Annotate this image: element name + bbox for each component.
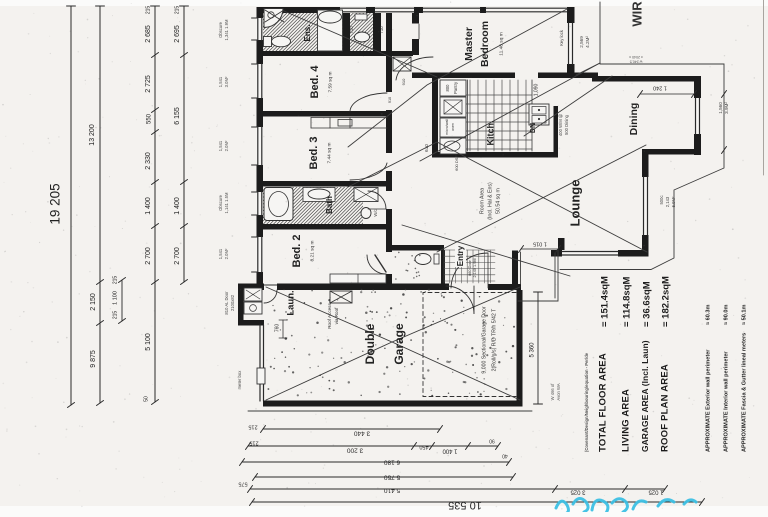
svg-text:1 025: 1 025 [648, 488, 664, 494]
svg-text:via Roof: via Roof [334, 307, 339, 325]
roof hip lounge sw-ne [437, 145, 646, 252]
svg-text:APPROXIMATE Fascia & Gutter li: APPROXIMATE Fascia & Gutter lineal meter… [741, 333, 747, 452]
window lounge south wall [562, 250, 618, 257]
svg-text:2,143: 2,143 [665, 196, 670, 207]
wc/entry north wall [390, 245, 444, 251]
svg-text:1,090: 1,090 [533, 84, 539, 97]
master bottom / lounge top wall [412, 73, 515, 79]
laundry wm [244, 302, 262, 314]
svg-text:W 466 of: W 466 of [550, 383, 555, 401]
svg-text:LIVING AREA: LIVING AREA [621, 389, 632, 452]
dim 1,240 dining [640, 93, 694, 95]
garage personal door [446, 286, 474, 314]
svg-text:1 240: 1 240 [653, 85, 667, 91]
svg-text:2,140 1.9M: 2,140 1.9M [473, 259, 477, 278]
svg-text:4.2M²: 4.2M² [585, 36, 590, 48]
svg-text:710: 710 [379, 26, 384, 34]
svg-text:1,560: 1,560 [718, 102, 723, 114]
kitchen fridge [440, 97, 466, 117]
ens/wc divider [343, 13, 350, 51]
svg-text:1,341 1.9M: 1,341 1.9M [224, 19, 229, 40]
scan edge artifact [763, 0, 765, 175]
svg-text:GARAGE AREA (Incl. Laun): GARAGE AREA (Incl. Laun) [640, 340, 650, 452]
bottom dim row C [242, 461, 509, 463]
powder toilet near entry [415, 254, 431, 265]
svg-text:3.0M²: 3.0M² [224, 76, 229, 87]
svg-text:215: 215 [249, 440, 258, 446]
svg-text:6 155: 6 155 [174, 107, 181, 125]
shower ensuite quarter round [264, 9, 283, 28]
svg-text:DN: DN [530, 123, 537, 133]
svg-text:19 205: 19 205 [48, 183, 63, 224]
toilet ensuite [264, 37, 272, 47]
svg-text:≈ 90.0m: ≈ 90.0m [723, 304, 729, 325]
svg-text:TOTAL FLOOR AREA: TOTAL FLOOR AREA [598, 353, 609, 452]
svg-text:500 Dining: 500 Dining [564, 114, 569, 135]
svg-text:90: 90 [489, 438, 495, 444]
svg-text:Lounge: Lounge [567, 180, 582, 227]
wall bath/bed2 [263, 224, 392, 230]
vanity ensuite [318, 10, 343, 51]
svg-text:215: 215 [112, 276, 118, 285]
door master [396, 57, 433, 80]
svg-text:Avon WA: Avon WA [556, 383, 561, 400]
svg-text:5 100: 5 100 [145, 333, 152, 351]
svg-text:6 180: 6 180 [383, 458, 400, 465]
svg-text:1,141 1.5M: 1,141 1.5M [224, 192, 229, 213]
roof hip through kitchen [420, 63, 600, 161]
svg-text:215: 215 [174, 6, 180, 15]
master bedroom west wall [412, 13, 419, 24]
blue pen scribble [556, 498, 696, 514]
roof hip across porch [402, 225, 570, 276]
svg-text:50: 50 [143, 396, 149, 402]
robe bed2 [330, 274, 386, 283]
svg-text:215: 215 [145, 6, 151, 15]
garage east wall [517, 290, 523, 407]
svg-text:Garage: Garage [392, 323, 406, 365]
roof valley dining [524, 76, 612, 136]
kitchen sink [440, 138, 466, 154]
svg-text:= 151.4sqM: = 151.4sqM [600, 276, 611, 327]
svg-text:610: 610 [424, 144, 429, 152]
kitchen pantry [440, 80, 466, 96]
svg-text:Obscure: Obscure [218, 21, 223, 37]
kitchen ovens [440, 118, 466, 137]
toilet wc nook [355, 32, 370, 42]
svg-text:2 700: 2 700 [174, 247, 181, 265]
svg-text:Bed. 2: Bed. 2 [291, 234, 303, 267]
svg-text:50.54 sq m: 50.54 sq m [495, 188, 501, 214]
svg-text:oven: oven [451, 123, 455, 131]
kitchen west wall [432, 73, 438, 158]
svg-text:2.0M²: 2.0M² [224, 140, 229, 151]
svg-text:Bedroom: Bedroom [479, 21, 491, 67]
windows top wall [340, 7, 366, 9]
svg-text:810 AL Door: 810 AL Door [224, 291, 229, 315]
laundry south wall [238, 320, 264, 326]
svg-text:2100x82: 2100x82 [230, 294, 235, 311]
laundry door arc [264, 290, 277, 303]
annotation roof access [330, 291, 352, 303]
svg-text:x 2040 x: x 2040 x [629, 55, 643, 59]
wall bed4/bed3 [263, 111, 392, 117]
svg-text:1 400: 1 400 [174, 197, 181, 215]
svg-text:2 685: 2 685 [145, 25, 152, 43]
bottom dim row E [250, 488, 665, 490]
door bed4 [350, 93, 387, 111]
dimension line L1 overall [70, 6, 72, 405]
svg-text:2.0M²: 2.0M² [224, 248, 229, 259]
lounge sw wall stub [558, 238, 565, 256]
svg-text:40: 40 [502, 453, 508, 459]
front entry door [451, 253, 488, 288]
svg-text:2(Roll/g/s) R/D TR/h 5/42 T: 2(Roll/g/s) R/D TR/h 5/42 T [491, 308, 497, 371]
garage roof hips [266, 287, 520, 342]
svg-text:micro/wall: micro/wall [445, 119, 449, 135]
roof hip lounge nw-se [437, 142, 647, 252]
svg-text:500c: 500c [659, 195, 664, 204]
svg-text:Bath: Bath [325, 196, 334, 214]
dining south wall [644, 149, 701, 155]
bathtub [264, 188, 293, 221]
svg-text:meter box: meter box [237, 370, 242, 390]
svg-text:575: 575 [238, 481, 247, 487]
cooktop bench [529, 104, 549, 125]
svg-text:11.48 sq m: 11.48 sq m [498, 32, 504, 55]
svg-text:910: 910 [401, 78, 406, 85]
meter box [257, 368, 265, 384]
svg-text:1 100: 1 100 [112, 291, 118, 305]
svg-text:10 535: 10 535 [448, 499, 482, 511]
wall bed3/bath [263, 181, 392, 187]
svg-text:APPROXIMATE Interior wall peri: APPROXIMATE Interior wall perimeter [723, 351, 729, 452]
garage south wall [263, 401, 523, 407]
svg-text:w 240.5: w 240.5 [630, 60, 643, 64]
svg-text:(Covenant/Design/Neighbouring/: (Covenant/Design/Neighbouring/equation -… [584, 352, 589, 452]
svg-text:Key lock: Key lock [559, 29, 564, 46]
dimension line L2 13,200 chain [99, 6, 101, 403]
svg-text:600 DSF: 600 DSF [454, 155, 459, 171]
door bed3 [350, 163, 387, 180]
lounge south wall [551, 250, 649, 257]
mid small chain 215/1,100/215 [121, 280, 123, 321]
svg-text:Obscure: Obscure [218, 194, 223, 210]
roof hip over ensuite/hall [284, 11, 437, 77]
dim 5,360 garage [537, 292, 539, 404]
eave line right of master [560, 2, 724, 270]
svg-text:WIR: WIR [629, 1, 644, 27]
svg-text:2 150: 2 150 [90, 293, 97, 311]
svg-text:5.9M²: 5.9M² [671, 196, 676, 207]
svg-text:1 400: 1 400 [145, 197, 152, 215]
svg-text:Bed. 3: Bed. 3 [308, 136, 320, 169]
garage sectional door dashed track [423, 293, 516, 397]
laundry bump west wall [238, 285, 244, 325]
svg-text:≈ 50.1m: ≈ 50.1m [741, 304, 747, 325]
door bath [368, 191, 386, 209]
svg-text:860 Door: 860 Door [468, 259, 472, 275]
svg-text:≈ 60.3m: ≈ 60.3m [705, 304, 711, 325]
wc/hall wall [373, 13, 381, 51]
svg-text:215: 215 [112, 311, 118, 320]
svg-text:= 182.2sqM: = 182.2sqM [661, 276, 672, 327]
window dining east wall [694, 98, 701, 134]
svg-text:3.9M²: 3.9M² [724, 102, 729, 114]
svg-text:Double: Double [363, 323, 377, 364]
kitchen + meals tile lines [444, 80, 532, 151]
hall wall west side [386, 13, 392, 92]
svg-text:3 440: 3 440 [353, 429, 370, 436]
top exterior wall [257, 7, 341, 13]
dimension chain L4 [183, 6, 185, 282]
dining north wall [592, 76, 701, 82]
svg-text:Entry: Entry [456, 245, 465, 266]
wall ens/bed4 [263, 51, 413, 56]
svg-text:3 200: 3 200 [346, 446, 363, 453]
svg-text:= 36.6sqM: = 36.6sqM [642, 281, 653, 327]
dn/dining divider wall [554, 106, 559, 152]
porch outline [518, 250, 558, 301]
wall bed2 bottom / garage north [238, 284, 449, 291]
svg-text:Master: Master [463, 27, 475, 61]
bottom dim row F overall 10,535 [252, 501, 702, 503]
svg-text:3 025: 3 025 [570, 488, 586, 494]
window master east wall [567, 23, 575, 64]
svg-text:W/c: W/c [373, 209, 378, 216]
windows left wall [257, 18, 264, 40]
svg-text:1 015: 1 015 [533, 241, 547, 247]
garage west thin wall [259, 325, 261, 401]
svg-text:ROOF PLAN AREA: ROOF PLAN AREA [660, 364, 671, 452]
svg-text:Bed. 4: Bed. 4 [309, 65, 321, 99]
door bed2 [367, 255, 386, 274]
svg-text:215: 215 [248, 424, 257, 430]
svg-text:(Incl. Hal & Ens): (Incl. Hal & Ens) [487, 182, 493, 220]
svg-text:760: 760 [274, 324, 280, 333]
svg-text:2,569: 2,569 [579, 36, 584, 48]
room label Entry [455, 245, 466, 267]
svg-text:2 700: 2 700 [145, 247, 152, 265]
lounge east wall [642, 149, 649, 257]
svg-text:Roof Access: Roof Access [327, 303, 332, 329]
left exterior wall [257, 7, 264, 290]
laundry tub [244, 288, 262, 301]
svg-text:1,541: 1,541 [218, 248, 223, 259]
svg-text:7.59 sq m: 7.59 sq m [327, 71, 333, 92]
svg-text:1,541: 1,541 [218, 76, 223, 87]
dim 1,015 porch [521, 248, 558, 250]
svg-text:7.44 sq m: 7.44 sq m [326, 142, 332, 163]
window lounge east wall [642, 177, 649, 235]
svg-text:Room Area: Room Area [479, 188, 485, 214]
svg-text:Kitch.: Kitch. [485, 120, 495, 145]
eave line garage south [248, 410, 532, 412]
svg-text:13 200: 13 200 [89, 124, 96, 146]
kitchen south wall [432, 152, 558, 158]
entry east wall [512, 251, 518, 285]
svg-text:5 750: 5 750 [383, 473, 400, 480]
roof hip master to ridge [348, 9, 567, 147]
svg-text:8.21 sq m: 8.21 sq m [309, 240, 315, 261]
svg-text:5 410: 5 410 [383, 486, 400, 493]
dining east wall [694, 76, 701, 155]
toilet bath wc [361, 208, 371, 219]
roof hip bath extension [348, 142, 437, 187]
entry front wall right of door [488, 284, 521, 290]
svg-text:1 400: 1 400 [442, 447, 458, 453]
svg-text:= 114.8sqM: = 114.8sqM [622, 276, 633, 327]
svg-text:2 330: 2 330 [145, 152, 152, 170]
svg-text:5 360: 5 360 [530, 342, 536, 358]
svg-text:2 695: 2 695 [174, 25, 181, 43]
concrete speckle texture garage [267, 252, 515, 397]
svg-text:710: 710 [349, 26, 354, 34]
bath shower box [354, 188, 378, 202]
annotation dining side dim [722, 91, 727, 98]
svg-text:Dining: Dining [628, 103, 640, 136]
svg-text:1,541: 1,541 [218, 140, 223, 151]
dimension chain L3 [154, 6, 156, 402]
entry tile grid [444, 250, 495, 283]
svg-text:Pantry: Pantry [453, 81, 458, 94]
bath vanity [303, 188, 335, 202]
svg-text:550: 550 [147, 113, 153, 124]
bottom dim row A [263, 428, 440, 430]
svg-text:2 725: 2 725 [145, 75, 152, 93]
bottom dim row D [255, 476, 513, 478]
corner diag master to eave [576, 63, 600, 75]
svg-text:800: 800 [445, 84, 450, 92]
linen closet hall [393, 57, 411, 71]
master east wall [567, 7, 575, 78]
svg-text:Ens.: Ens. [303, 25, 312, 42]
wc/entry divider wall [441, 250, 445, 284]
svg-text:450: 450 [419, 444, 428, 450]
robe bed4/bed3 [311, 118, 387, 129]
svg-text:9 875: 9 875 [90, 350, 97, 368]
svg-text:400 W/M @: 400 W/M @ [558, 114, 563, 136]
bottom dim row B [248, 445, 498, 447]
svg-text:910: 910 [388, 97, 392, 103]
